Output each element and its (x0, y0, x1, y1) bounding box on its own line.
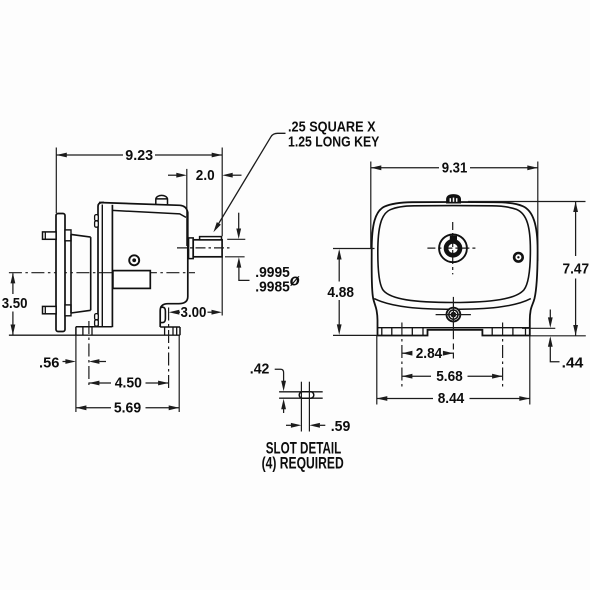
body lid (99, 203, 188, 218)
stud top (43, 232, 57, 239)
dimension 4.88 label (327, 284, 354, 301)
dimension 7.47 label (563, 260, 590, 277)
svg-text:3.50: 3.50 (2, 295, 28, 312)
dimension .59 label (331, 418, 351, 435)
dimension .56 label (39, 355, 59, 372)
note 1.25 LONG KEY (288, 134, 379, 151)
diameter symbol (290, 272, 300, 290)
slot capsule (299, 392, 314, 398)
dimension 8.44 line and arrows (377, 396, 530, 401)
note .25 SQUARE X (288, 119, 376, 136)
diameter top arrow (236, 213, 241, 239)
svg-text:.44: .44 (562, 354, 584, 371)
svg-text:3.00: 3.00 (181, 304, 207, 321)
rear slot centerline (side view) (168, 308, 170, 389)
dimension 4.88 extension lines (333, 249, 378, 336)
dimension .44 label (562, 354, 584, 371)
bottom drain plug (447, 308, 461, 322)
front small bolt (514, 253, 523, 262)
dimension 5.69 line and arrows (76, 405, 179, 410)
dimension .44 arrows (548, 310, 560, 362)
diameter label .9985 (255, 278, 289, 295)
plate bolts bottom (95, 314, 99, 327)
svg-text:8.44: 8.44 (438, 390, 465, 407)
svg-text:.59: .59 (331, 418, 351, 435)
dimension 4.50 label (115, 375, 142, 392)
dimension 9.23 line and arrows (56, 153, 222, 158)
slot detail .42 leader and arrow (275, 369, 286, 391)
dimension 7.47 ticks (468, 202, 586, 336)
svg-text:ø: ø (290, 272, 300, 290)
label SLOT DETAIL (266, 438, 341, 457)
dimension 2.84 label (416, 345, 443, 362)
dimension 3.00 arrows (169, 310, 222, 315)
skirt bottom line (378, 327, 530, 329)
output shaft (193, 240, 222, 257)
dimension 8.44 label (438, 390, 465, 407)
front shaft bore (439, 234, 467, 262)
extension line foot left edge (75, 335, 77, 412)
tapered drum (71, 234, 91, 313)
slot detail lines (279, 392, 323, 398)
diameter label .9995 (255, 264, 289, 281)
dimension 4.88 line and arrows (337, 249, 342, 335)
dimension .59 arrows (286, 423, 325, 428)
svg-text:1.25 LONG KEY: 1.25 LONG KEY (288, 134, 379, 151)
dimension .56 arrows (63, 359, 107, 364)
svg-text:2.0: 2.0 (196, 167, 215, 184)
dimension 9.23 extension line left (55, 148, 57, 214)
label (4) REQUIRED (262, 453, 344, 472)
housing outer outline (372, 202, 538, 336)
housing bottom seam (374, 299, 531, 310)
dimension 5.68 label (436, 368, 463, 385)
gearbox front plate (98, 203, 112, 328)
front shaft keyway (450, 236, 456, 241)
flange centerline (9, 272, 195, 274)
svg-text:9.31: 9.31 (442, 160, 468, 177)
body lower-right profile (160, 297, 188, 328)
front slot centerlines (402, 323, 503, 389)
stud bottom (43, 306, 57, 313)
front right slot plate (492, 328, 525, 336)
svg-text:.9985: .9985 (255, 278, 289, 295)
dimension .44 tick (522, 327, 555, 329)
dimension 2.84 line and arrows (402, 351, 454, 356)
rear foot plate (160, 327, 180, 335)
dimension 3.00 label (181, 304, 207, 321)
svg-text:5.68: 5.68 (436, 368, 463, 385)
diameter bottom arrow (237, 257, 250, 280)
rear slot boss (160, 307, 165, 322)
drain plug crosshair (436, 297, 471, 359)
left foot plate (76, 327, 112, 336)
svg-text:5.69: 5.69 (114, 399, 141, 416)
svg-text:4.88: 4.88 (327, 284, 354, 301)
slot detail label .42 (250, 360, 270, 377)
shaft key (200, 237, 222, 240)
bolt on body side (129, 255, 139, 265)
svg-text:4.50: 4.50 (115, 375, 142, 392)
dimension 5.69 label (114, 399, 141, 416)
slot detail vertical extension lines (301, 382, 309, 432)
dimension 9.31 label (442, 160, 468, 177)
front slot centerline (side view) (88, 321, 90, 389)
dimension 9.23 extension line right (shaft end) (221, 148, 223, 316)
conduit pad (113, 271, 150, 289)
leader to key (213, 133, 285, 232)
dimension 3.50 label (2, 295, 28, 312)
nut top (65, 230, 71, 241)
svg-text:9.23: 9.23 (125, 147, 153, 164)
svg-text:7.47: 7.47 (563, 260, 590, 277)
flange plate (56, 214, 65, 332)
dimension 2.0 label (196, 167, 215, 184)
dome cap on lid (156, 195, 168, 204)
dimension 9.31 extension lines (371, 162, 538, 262)
nut bottom (65, 305, 71, 316)
front left slot plate (382, 328, 423, 336)
top vent plug (447, 195, 461, 203)
dimension 2.0 arrows (168, 173, 242, 178)
svg-text:(4) REQUIRED: (4) REQUIRED (262, 453, 344, 472)
foot bottom line (9, 334, 180, 336)
svg-text:2.84: 2.84 (416, 345, 443, 362)
extension lines feet outer (377, 336, 530, 405)
svg-text:.42: .42 (250, 360, 270, 377)
body right edge (187, 218, 189, 297)
front shaft crosshair (427, 222, 477, 274)
dimension 4.50 line and arrows (89, 381, 169, 386)
dimension 9.23 label (125, 147, 153, 164)
dimension 3.50 line and arrows (11, 273, 16, 335)
housing inner outline (378, 206, 531, 303)
shaft boss (189, 238, 194, 259)
diameter ticks (225, 239, 245, 256)
plate bolts top (95, 215, 99, 228)
svg-text:.56: .56 (39, 355, 59, 372)
shaft centerline (177, 247, 233, 249)
extension line foot right edge (178, 335, 180, 412)
dimension 7.47 line and arrows (573, 201, 578, 336)
dimension 5.68 line and arrows (402, 374, 503, 379)
slot detail .42 bottom arrow (281, 399, 286, 413)
dimension 9.31 line and arrows (371, 165, 538, 170)
dimension 2.0 extension line (186, 169, 188, 246)
